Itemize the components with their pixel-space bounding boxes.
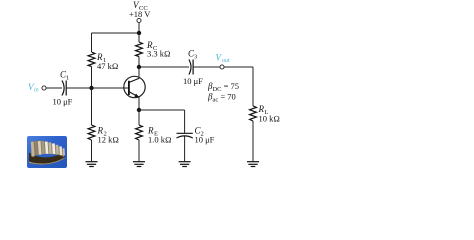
wire C2 to ground	[184, 137, 186, 162]
svg-text:10 μF: 10 μF	[183, 76, 203, 86]
svg-text:10 μF: 10 μF	[53, 97, 73, 107]
wire C3 to Vout	[193, 66, 220, 68]
wire RL to ground	[252, 121, 254, 162]
wire emitter lead	[138, 97, 140, 110]
wire emitter to C2 branch	[139, 109, 185, 111]
ground RL	[247, 162, 259, 167]
wire collector to C3	[139, 66, 189, 68]
node VCC junction	[137, 31, 141, 35]
wire input to C1	[46, 87, 62, 89]
capacitor C3	[189, 60, 191, 75]
wire collector lead	[138, 67, 140, 78]
svg-text:3: 3	[194, 54, 197, 61]
wire R2 branch	[91, 88, 93, 125]
wire Vout to RL branch	[224, 66, 253, 68]
svg-text:βac = 70: βac = 70	[207, 91, 236, 103]
resistor R2	[88, 125, 95, 140]
resistor RL	[250, 106, 257, 121]
svg-text:47 kΩ: 47 kΩ	[97, 61, 118, 71]
resistor RE	[138, 110, 140, 125]
svg-text:R: R	[258, 104, 265, 114]
svg-text:3.3 kΩ: 3.3 kΩ	[147, 49, 171, 59]
output terminal	[220, 65, 224, 69]
wire VCC to rail	[138, 23, 140, 33]
svg-text:1: 1	[66, 75, 69, 82]
node collector junction	[137, 65, 141, 69]
wire R2 to ground	[91, 140, 93, 162]
svg-text:12 kΩ: 12 kΩ	[98, 135, 119, 145]
wire RE to ground	[138, 140, 140, 162]
transistor Q1	[124, 76, 145, 97]
Multisim icon	[27, 136, 67, 168]
svg-text:in: in	[34, 87, 39, 93]
capacitor C1	[62, 81, 64, 96]
VCC terminal	[137, 18, 141, 22]
svg-text:1.0 kΩ: 1.0 kΩ	[148, 135, 172, 145]
capacitor C2	[177, 132, 193, 134]
wire C1 to base	[66, 87, 129, 89]
wire R1 to base node	[91, 67, 93, 89]
svg-text:+18 V: +18 V	[129, 9, 151, 19]
svg-text:10 μF: 10 μF	[195, 135, 215, 145]
wire top rail	[92, 32, 140, 34]
ground C2	[179, 162, 191, 167]
input terminal	[42, 86, 46, 90]
wire R1 branch top	[91, 33, 93, 52]
ground R2	[86, 162, 98, 167]
resistor R1	[88, 52, 95, 67]
node emitter junction	[137, 108, 141, 112]
ground RE	[133, 162, 145, 167]
resistor RC	[138, 33, 140, 42]
svg-text:out: out	[222, 58, 230, 64]
node base junction	[89, 86, 93, 90]
svg-text:10 kΩ: 10 kΩ	[259, 114, 280, 124]
